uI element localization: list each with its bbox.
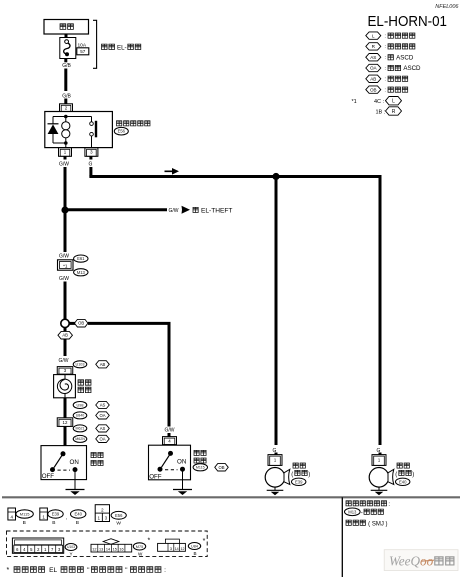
svg-text:E39: E39 bbox=[295, 479, 303, 484]
svg-text::: : bbox=[385, 77, 386, 83]
svg-text:W: W bbox=[138, 552, 143, 557]
svg-text:G/W: G/W bbox=[59, 276, 69, 282]
svg-text:EL: EL bbox=[49, 567, 57, 574]
wire corner down to horn high bbox=[379, 177, 382, 446]
badge E61 bbox=[74, 255, 88, 262]
note box SMJ reference bbox=[341, 497, 343, 577]
svg-text:12: 12 bbox=[63, 420, 68, 425]
svg-text::: : bbox=[385, 87, 386, 93]
label 螺旋电缆 bbox=[78, 380, 91, 385]
svg-text:): ) bbox=[412, 472, 414, 478]
svg-text:*: * bbox=[148, 537, 151, 544]
connector view U103 multi-pin bbox=[12, 538, 63, 553]
badge E39 bbox=[292, 478, 306, 485]
junction dot theft branch bbox=[61, 206, 68, 213]
badge AS bbox=[96, 401, 110, 408]
badge OA bbox=[96, 435, 110, 442]
connector view 4 M115 bbox=[8, 508, 16, 520]
connector pin 1 horn bbox=[372, 455, 386, 466]
label 参见 EL-电源 bbox=[102, 44, 115, 49]
badge U840 bbox=[73, 412, 87, 419]
svg-text:W: W bbox=[116, 521, 121, 527]
svg-text:(: ( bbox=[291, 472, 293, 478]
svg-text:M115: M115 bbox=[20, 511, 30, 516]
svg-text:OA: OA bbox=[99, 413, 105, 418]
wire horizontal G run bbox=[89, 175, 381, 178]
connector *1 SMJ bbox=[58, 260, 74, 270]
svg-text:E56: E56 bbox=[118, 129, 126, 134]
dashed connector group box bbox=[7, 531, 208, 557]
svg-text:OA: OA bbox=[370, 66, 378, 71]
svg-text:OB: OB bbox=[218, 465, 224, 470]
svg-text:G/W: G/W bbox=[59, 358, 69, 364]
svg-text:13: 13 bbox=[99, 548, 103, 552]
ground horn bbox=[274, 487, 276, 490]
relay coil junction bottom bbox=[64, 141, 68, 145]
relay coil bbox=[62, 122, 70, 130]
svg-text:16: 16 bbox=[119, 548, 123, 552]
badge AB on main column bbox=[64, 328, 67, 332]
svg-text:14: 14 bbox=[106, 548, 110, 552]
note badge M13 bbox=[345, 508, 361, 516]
badge M621 bbox=[73, 425, 87, 432]
svg-text:12: 12 bbox=[92, 548, 96, 552]
legend badge OB bbox=[366, 86, 381, 93]
branch wire without airbag bbox=[70, 322, 76, 325]
wire relay pin3 down bbox=[89, 156, 92, 159]
fuse exit stub bbox=[64, 59, 67, 63]
label 喇叭开关 bbox=[91, 453, 103, 458]
svg-text::: : bbox=[385, 33, 386, 39]
svg-text:E56: E56 bbox=[115, 513, 123, 518]
svg-text:AS: AS bbox=[100, 403, 106, 408]
separator line bbox=[2, 496, 460, 498]
connector view 1 E39 E40 bbox=[40, 508, 48, 520]
svg-text:AB: AB bbox=[62, 333, 68, 338]
wire relay pin1 down bbox=[64, 156, 67, 159]
svg-text:AB: AB bbox=[100, 362, 106, 367]
horn symbol bbox=[265, 468, 285, 488]
label 喇叭继电器 bbox=[117, 121, 150, 126]
horn relay box bbox=[45, 112, 113, 148]
connector view relay E56 bbox=[95, 505, 109, 522]
svg-text:E40: E40 bbox=[399, 479, 407, 484]
svg-text:G/W: G/W bbox=[59, 162, 69, 168]
horn switch 1 (airbag) bbox=[41, 446, 87, 480]
connector pin 1 horn bbox=[268, 455, 282, 466]
svg-text:*: * bbox=[7, 567, 10, 574]
svg-text:G: G bbox=[89, 162, 93, 168]
badge U103 bbox=[73, 361, 87, 368]
svg-text:EL-THEFT: EL-THEFT bbox=[201, 208, 233, 215]
svg-text:57: 57 bbox=[80, 49, 86, 54]
connector view U84 bbox=[165, 539, 179, 543]
svg-text:ASCD: ASCD bbox=[403, 65, 421, 72]
stub to connector 2 bbox=[64, 99, 67, 105]
svg-text::: : bbox=[164, 567, 166, 574]
note text 连接器 SMJ bbox=[346, 520, 365, 525]
connector pin 1 bbox=[59, 148, 72, 157]
svg-text:14: 14 bbox=[175, 547, 179, 551]
svg-text:M621: M621 bbox=[76, 427, 85, 431]
svg-text:Y: Y bbox=[69, 552, 72, 557]
svg-text:NFEL006: NFEL006 bbox=[435, 4, 459, 10]
svg-text:B: B bbox=[52, 520, 55, 526]
junction dot horn low feed bbox=[272, 173, 279, 180]
svg-text:OB: OB bbox=[370, 87, 377, 92]
svg-text::: : bbox=[385, 55, 386, 61]
spiral cable box 螺旋电缆 bbox=[54, 375, 76, 398]
ground horn bbox=[378, 487, 380, 490]
svg-text:( SMJ ): ( SMJ ) bbox=[368, 522, 387, 528]
relay badge E56 bbox=[114, 127, 128, 135]
svg-text:M115: M115 bbox=[196, 466, 205, 470]
badge OA bbox=[96, 412, 110, 419]
svg-text:U98: U98 bbox=[77, 403, 84, 407]
svg-text:B: B bbox=[193, 551, 196, 556]
svg-text:G/B: G/B bbox=[62, 63, 71, 69]
svg-text:-: - bbox=[361, 511, 363, 517]
svg-text:L: L bbox=[392, 99, 395, 105]
svg-text:B: B bbox=[76, 520, 79, 526]
svg-text:15: 15 bbox=[113, 548, 117, 552]
watermark WeeQoo bbox=[384, 550, 458, 571]
connector pin 3 spiral cable bbox=[57, 367, 73, 375]
wire fuse to relay bbox=[64, 69, 67, 92]
svg-text:OFF: OFF bbox=[149, 473, 162, 480]
connector pin 12 bbox=[57, 418, 73, 427]
wire down to junction circle bbox=[64, 282, 67, 320]
svg-text:ASCD: ASCD bbox=[396, 54, 414, 61]
connector pin 4 bbox=[163, 437, 177, 445]
svg-text:G/W: G/W bbox=[59, 254, 69, 260]
badge U98 bbox=[73, 402, 87, 409]
svg-text::: : bbox=[385, 44, 386, 50]
svg-text:E61: E61 bbox=[77, 256, 85, 261]
arrow to EL-THEFT bbox=[182, 206, 191, 214]
horn symbol bbox=[369, 468, 389, 488]
svg-text:(: ( bbox=[395, 472, 397, 478]
svg-text:EL-HORN-01: EL-HORN-01 bbox=[368, 14, 448, 30]
note text 参见以下内容 bbox=[346, 501, 387, 506]
svg-text:AS: AS bbox=[370, 55, 376, 60]
branch wire to EL-THEFT bbox=[65, 208, 167, 211]
open junction circle bbox=[61, 319, 69, 327]
badge M115 bbox=[193, 464, 207, 471]
fuse 10A bbox=[60, 38, 76, 59]
svg-text:G: G bbox=[273, 448, 277, 454]
wire down to spiral cable bbox=[64, 339, 67, 356]
bracket see EL-POWER bbox=[93, 20, 97, 68]
svg-text:AB: AB bbox=[370, 76, 376, 81]
legend badge L bbox=[366, 32, 381, 39]
horn switch 2 (no airbag) bbox=[149, 445, 191, 480]
svg-text:EL-: EL- bbox=[117, 45, 127, 52]
svg-text::: : bbox=[385, 66, 386, 72]
svg-text:12: 12 bbox=[181, 547, 185, 551]
ground horn switch 2 bbox=[173, 480, 192, 495]
wire below spiral cable bbox=[64, 398, 67, 446]
label 喇叭开关 bbox=[194, 450, 206, 455]
svg-text:3: 3 bbox=[170, 547, 172, 551]
svg-text:*: * bbox=[203, 538, 206, 545]
legend badge OA bbox=[366, 64, 381, 71]
svg-text:M62N: M62N bbox=[75, 437, 85, 441]
svg-text:M75: M75 bbox=[136, 545, 143, 549]
direction arrow bbox=[165, 168, 180, 175]
svg-text:1B :: 1B : bbox=[376, 110, 386, 116]
svg-text:E40: E40 bbox=[74, 512, 82, 517]
relay coil wire to pin1 bbox=[65, 143, 67, 148]
relay coil junction top bbox=[64, 115, 68, 119]
relay bottom rail bbox=[53, 142, 66, 144]
badge AS bbox=[96, 425, 110, 432]
power supply box 电源 bbox=[44, 20, 89, 35]
svg-text:*1: *1 bbox=[63, 263, 68, 268]
relay diode D bbox=[52, 117, 54, 124]
connector view M75 SMJ bbox=[103, 539, 119, 545]
svg-text:U103: U103 bbox=[67, 545, 75, 549]
badge M62N bbox=[73, 435, 87, 442]
svg-text:L: L bbox=[372, 33, 375, 38]
svg-text:M13: M13 bbox=[77, 270, 86, 275]
connector pin 3 bbox=[85, 148, 98, 157]
badge M13 bbox=[74, 269, 88, 276]
badge AB bbox=[96, 361, 110, 368]
badge OB bbox=[74, 319, 88, 327]
wire power to fuse bbox=[65, 34, 68, 38]
svg-text:E39: E39 bbox=[52, 512, 60, 517]
svg-text:AS: AS bbox=[100, 426, 106, 431]
svg-text:OB: OB bbox=[78, 321, 84, 326]
svg-text:G/W: G/W bbox=[169, 208, 179, 214]
svg-text:M13: M13 bbox=[348, 509, 357, 514]
svg-text:R: R bbox=[392, 109, 396, 115]
svg-text:*1: *1 bbox=[352, 99, 357, 105]
branch wire to horn switch 2 bbox=[88, 322, 171, 325]
relay top rail bbox=[53, 116, 92, 118]
legend badge AS bbox=[366, 54, 381, 61]
relay contact bbox=[91, 117, 93, 122]
svg-text:OA: OA bbox=[99, 436, 105, 441]
svg-text:G/W: G/W bbox=[165, 428, 175, 434]
legend badge AB bbox=[366, 75, 381, 82]
wire down to horn low bbox=[275, 177, 278, 446]
svg-text:U103: U103 bbox=[75, 363, 84, 367]
connector pin 2 bbox=[60, 104, 73, 112]
legend badge R bbox=[366, 43, 381, 50]
svg-text:U84: U84 bbox=[191, 544, 198, 548]
badge E40 bbox=[396, 478, 410, 485]
svg-text:G: G bbox=[377, 448, 381, 454]
label 至 EL-THEFT bbox=[193, 207, 198, 212]
svg-text:ON: ON bbox=[177, 459, 186, 466]
badge OB bbox=[215, 464, 229, 471]
fuse number 57 bbox=[77, 48, 89, 55]
svg-text:,: , bbox=[66, 515, 67, 521]
svg-text:ON: ON bbox=[70, 459, 79, 466]
svg-text:4C :: 4C : bbox=[374, 99, 385, 105]
ground horn switch 1 bbox=[66, 480, 85, 495]
svg-text:U840: U840 bbox=[76, 414, 85, 418]
svg-text:): ) bbox=[308, 472, 310, 478]
svg-text:OFF: OFF bbox=[42, 473, 55, 480]
svg-text:B: B bbox=[23, 520, 26, 526]
